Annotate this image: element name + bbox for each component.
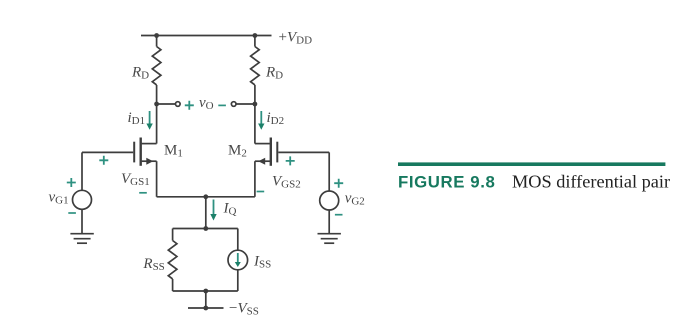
svg-text:MOS differential pair: MOS differential pair: [512, 172, 670, 192]
svg-text:FIGURE 9.8: FIGURE 9.8: [398, 173, 495, 192]
